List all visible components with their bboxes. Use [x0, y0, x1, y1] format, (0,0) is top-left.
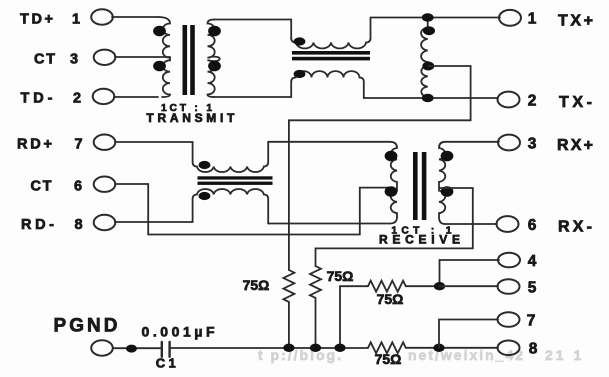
junction dot output coil bottom: [422, 94, 434, 102]
choke L2 top winding: [193, 142, 269, 172]
polarity dot T2 primary upper: [385, 151, 398, 162]
terminal 6 RX-: [497, 216, 519, 232]
tap dot output coil: [422, 62, 434, 71]
polarity dot choke L2 bottom: [199, 192, 211, 200]
svg-text:net/weixin_42: net/weixin_42: [408, 347, 525, 363]
pin label 2 TX-: [528, 93, 592, 112]
ref label C1: [156, 356, 176, 371]
choke L2 bottom winding: [193, 189, 269, 224]
svg-text:1: 1: [72, 11, 80, 27]
terminal 5: [498, 279, 520, 294]
terminal 2 TD-: [93, 89, 115, 104]
svg-text:6: 6: [528, 217, 537, 234]
wire resistor to 4/5 junction: [406, 285, 440, 287]
wire RX center tap return: [316, 188, 473, 266]
svg-text:CT: CT: [34, 52, 55, 68]
svg-text:7: 7: [74, 137, 82, 153]
pin label 7: [527, 313, 536, 330]
terminal 1 TD+: [91, 9, 113, 24]
wire junction to terminal 4: [440, 260, 500, 286]
value label 75ohm (pins 7/8): [375, 351, 402, 367]
pin label RD+ 7: [17, 137, 83, 153]
wire junction to terminal 7: [439, 320, 498, 348]
wire T1 secondary top to choke L1: [214, 20, 291, 39]
transformer T1 primary winding (left): [158, 17, 170, 97]
polarity dot T1 primary lower: [153, 61, 166, 72]
svg-text:75Ω: 75Ω: [243, 277, 270, 293]
resistor 75ohm (pins 7/8): [368, 342, 406, 353]
wire CT3 to transformer primary tap: [115, 56, 170, 58]
wire T2 secondary top to RX+: [445, 141, 499, 143]
svg-text:TX-: TX-: [559, 94, 592, 111]
svg-text:3: 3: [70, 52, 78, 68]
resistor 75ohm (RX tap): [310, 266, 321, 298]
terminal 8 RD-: [94, 215, 116, 230]
wire RD- to choke L2: [115, 199, 193, 222]
svg-text:t p://blog.: t p://blog.: [258, 347, 343, 363]
terminal 3 CT: [94, 50, 116, 65]
svg-text:TRANSMIT: TRANSMIT: [146, 111, 235, 125]
wire TD+ to transformer primary top: [112, 16, 158, 18]
pin label 8: [529, 341, 538, 358]
wire TD- to transformer primary bottom: [114, 96, 158, 98]
polarity dot T1 secondary upper: [208, 26, 221, 37]
junction dot output coil top: [422, 13, 434, 21]
pin label RD- 8: [21, 217, 83, 233]
svg-text:2: 2: [73, 91, 81, 107]
svg-text:RX+: RX+: [557, 137, 593, 154]
junction dot bus x315: [310, 344, 321, 352]
svg-text:8: 8: [74, 217, 82, 233]
wire PGND to capacitor: [113, 347, 162, 349]
pin label 4: [528, 253, 537, 270]
value label 0.001uF: [142, 324, 215, 340]
ground bus wire: [170, 347, 368, 349]
polarity dot T2 primary lower: [385, 186, 398, 197]
junction dot near PGND: [126, 345, 137, 353]
pin label 6 RX-: [528, 217, 592, 236]
wire choke L2 bottom to T2 primary bottom: [268, 217, 397, 224]
transformer T2 primary winding (left): [391, 148, 397, 217]
wire RD+ to choke L2: [115, 142, 193, 162]
wire branch to pins 4/5: [340, 286, 368, 348]
svg-text:RX-: RX-: [558, 219, 592, 236]
svg-text:CT: CT: [31, 179, 52, 195]
core choke L2: [198, 176, 273, 185]
transformer T1 secondary winding (right): [208, 20, 220, 98]
svg-text:TX+: TX+: [558, 13, 593, 30]
core choke L1: [292, 51, 370, 60]
terminal 4: [498, 253, 520, 268]
junction dot 7/8: [433, 344, 444, 352]
value label 75ohm (pins 4/5): [377, 291, 404, 307]
svg-text:3: 3: [528, 136, 537, 153]
pin label TD- 2: [21, 91, 82, 107]
svg-text:TD+: TD+: [20, 11, 53, 27]
svg-text:75Ω: 75Ω: [327, 268, 354, 284]
core T2: [413, 152, 426, 220]
terminal PGND: [91, 340, 113, 355]
terminal 8: [498, 341, 520, 356]
polarity dot choke L1 bottom: [294, 70, 306, 78]
svg-text:TD-: TD-: [21, 91, 53, 107]
svg-text:7: 7: [527, 313, 536, 330]
value label 1CT : 1 (transmit): [161, 103, 212, 114]
label RECEIVE: [379, 232, 460, 246]
watermark: [258, 347, 584, 363]
svg-text:0.001µF: 0.001µF: [142, 324, 215, 340]
value label 75ohm (RX tap): [327, 268, 354, 284]
pin label 1 TX+: [528, 11, 593, 30]
value label 1CT : 1 (receive): [391, 226, 451, 237]
terminal 2 TX-: [498, 92, 520, 108]
pin label CT 6: [31, 179, 83, 195]
pin label CT 3: [34, 52, 78, 68]
label PGND: [54, 316, 118, 337]
polarity dot T1 primary upper: [153, 26, 166, 37]
svg-text:C1: C1: [156, 356, 176, 371]
capacitor C1: [162, 342, 170, 357]
pin label 3 RX+: [528, 136, 593, 155]
wire choke L2 top to T2 primary top: [268, 142, 397, 148]
polarity dot T2 secondary lower: [441, 186, 454, 197]
wire TX center tap return: [289, 66, 471, 270]
wire top rail choke to TX+: [371, 17, 501, 19]
polarity dot T1 secondary lower: [208, 61, 221, 72]
label TRANSMIT: [146, 111, 235, 125]
svg-text:RD-: RD-: [21, 217, 54, 233]
pin label TD+ 1: [20, 11, 80, 27]
svg-text:2: 2: [528, 93, 537, 110]
svg-text:1: 1: [528, 11, 537, 28]
output autotransformer coil: [421, 18, 428, 99]
terminal 7 RD+: [94, 135, 116, 150]
terminal 6 CT: [94, 177, 116, 192]
polarity dot output coil: [423, 26, 435, 35]
terminal 1 TX+: [499, 10, 521, 26]
junction dot 4/5: [434, 282, 445, 290]
wire resistor to 7/8 junction: [406, 347, 498, 349]
polarity dot T2 secondary upper: [441, 151, 454, 162]
wire resistor to ground bus: [315, 298, 317, 348]
svg-text:5: 5: [528, 280, 537, 297]
polarity dot choke L1 top: [294, 37, 306, 45]
core T1: [183, 25, 195, 95]
wire bottom rail choke to TX-: [364, 97, 498, 99]
choke L1 top winding: [291, 18, 370, 49]
junction dot bus x340: [334, 344, 345, 352]
terminal 3 RX+: [498, 135, 520, 151]
wire T2 secondary bottom to RX-: [445, 223, 497, 225]
wire junction to terminal 5: [440, 285, 499, 287]
value label 75ohm (TX tap): [243, 277, 270, 293]
wire CT6 jog to receive primary tap: [115, 184, 390, 235]
svg-text:6: 6: [74, 179, 82, 195]
terminal 7: [498, 312, 520, 327]
resistor 75ohm (TX tap): [283, 270, 294, 302]
polarity dot choke L2 top: [199, 161, 211, 169]
transformer T2 secondary winding (right): [439, 142, 445, 224]
svg-text:21 1: 21 1: [545, 347, 584, 363]
wire resistor to ground bus: [288, 302, 290, 348]
svg-text:RD+: RD+: [17, 137, 52, 153]
svg-text:8: 8: [529, 341, 538, 358]
pin label 5: [528, 280, 537, 297]
svg-text:75Ω: 75Ω: [375, 351, 402, 367]
svg-text:4: 4: [528, 253, 537, 270]
resistor 75ohm (pins 4/5): [368, 281, 406, 292]
choke L1 bottom winding: [291, 71, 364, 98]
wire T1 secondary bottom to choke L1: [214, 81, 291, 97]
svg-text:75Ω: 75Ω: [377, 291, 404, 307]
junction dot bus x290: [283, 344, 294, 352]
svg-text:PGND: PGND: [54, 316, 118, 337]
